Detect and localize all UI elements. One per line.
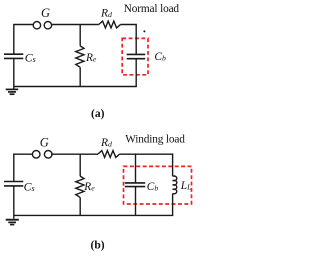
- resistor Re (a): [76, 46, 84, 67]
- wire: Cb vertical upper (b): [135, 153, 137, 183]
- svg-text:G: G: [41, 6, 50, 20]
- wire: Re vertical upper (a): [79, 25, 81, 46]
- wire: LL vertical lower (b): [172, 194, 174, 216]
- ground (b): [6, 220, 19, 225]
- svg-text:Rd: Rd: [100, 137, 112, 149]
- svg-text:LL: LL: [180, 180, 191, 192]
- wire: bottom rail (b): [14, 214, 174, 216]
- svg-text:Winding load: Winding load: [125, 134, 185, 146]
- spark gap G (a): [33, 22, 51, 29]
- wire: top rail right segment (a): [121, 24, 137, 26]
- wire: LL vertical upper (b): [172, 153, 174, 176]
- wire: left vertical lower (b): [13, 186, 15, 219]
- svg-text:Cs: Cs: [25, 51, 36, 65]
- svg-text:Cb: Cb: [154, 51, 166, 63]
- svg-text:(a): (a): [91, 108, 105, 120]
- ground (a): [6, 89, 19, 94]
- resistor Rd (a): [99, 21, 121, 28]
- wire: bottom rail (a): [14, 86, 137, 88]
- node dot (a): [143, 30, 145, 32]
- wire: Re vertical upper (b): [79, 154, 81, 176]
- svg-text:Re: Re: [85, 52, 97, 64]
- svg-text:Cb: Cb: [147, 181, 159, 193]
- wire: Re vertical lower (b): [79, 197, 81, 215]
- wire: top rail left segment (a): [14, 24, 34, 26]
- svg-text:Normal load: Normal load: [124, 3, 180, 15]
- capacitor Cs (b): [4, 182, 23, 186]
- resistor Rd (b): [98, 151, 120, 158]
- winding load dashed box (b): [124, 166, 192, 204]
- wire: left vertical lower (a): [13, 58, 15, 89]
- wire: top rail middle segment (b): [51, 153, 98, 155]
- svg-text:(b): (b): [91, 240, 105, 252]
- capacitor Cs (a): [4, 54, 23, 58]
- inductor LL (b): [173, 176, 177, 194]
- spark gap G (b): [32, 151, 52, 159]
- wire: top rail middle segment (a): [52, 24, 99, 26]
- wire: right vertical lower (a): [135, 59, 137, 87]
- svg-text:Cs: Cs: [24, 180, 35, 194]
- wire: left vertical upper (b): [13, 153, 15, 181]
- wire: Cb vertical lower (b): [135, 187, 137, 216]
- wire: top rail left segment (b): [14, 153, 33, 155]
- normal load dashed box (a): [122, 38, 148, 74]
- wire: Re vertical lower (a): [79, 67, 81, 86]
- svg-text:G: G: [40, 135, 49, 149]
- capacitor Cb (b): [125, 183, 145, 187]
- wire: left vertical upper (a): [13, 24, 15, 54]
- wire: right vertical upper (a): [135, 24, 137, 55]
- svg-text:Rd: Rd: [100, 7, 112, 19]
- resistor Re (b): [76, 176, 84, 197]
- svg-text:Re: Re: [83, 181, 95, 193]
- capacitor Cb (a): [127, 54, 146, 58]
- wire: top rail right segment (b): [120, 153, 174, 155]
